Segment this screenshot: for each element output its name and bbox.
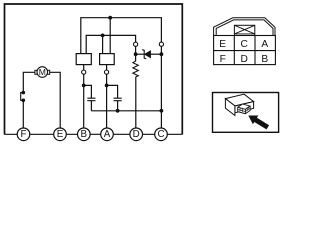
zener diode triangle (144, 51, 150, 58)
pin circle below box1 (82, 70, 86, 74)
capacitor C2 plates (114, 98, 122, 101)
wire: capacitor2 top branch (107, 85, 118, 98)
wire: A riser (106, 74, 108, 128)
capacitor C1 plates (87, 98, 95, 101)
svg-text:C: C (157, 129, 164, 140)
connector housing inner outline (216, 20, 273, 36)
node: rail2 junction to box2 left lead (101, 34, 105, 38)
motor M left brush (35, 70, 38, 74)
node: zener left junction (134, 52, 138, 56)
component box 1 (76, 54, 91, 65)
pin circle below box2 (105, 70, 109, 74)
node: zener right junction (160, 52, 164, 56)
resistor R (zigzag) (133, 61, 138, 77)
breaker contact dot top (22, 91, 26, 95)
svg-text:D: D (241, 54, 248, 65)
zener diode cathode bar with hooks (142, 50, 146, 59)
svg-text:E: E (219, 39, 226, 50)
wire: resistor down to terminal D (135, 77, 137, 128)
node: A riser junction to capacitor 2 (105, 84, 109, 88)
svg-text:F: F (21, 129, 27, 140)
svg-text:C: C (241, 39, 248, 50)
terminal A (101, 128, 114, 141)
svg-text:B: B (261, 54, 268, 65)
wire: rail2 from box1 right lead to left contact (86, 35, 135, 53)
svg-text:A: A (261, 39, 268, 50)
terminal B (78, 128, 91, 141)
wire: F riser (upper part) to motor left (23, 72, 35, 92)
contact point left (open circle) (134, 42, 138, 46)
terminal E (54, 128, 67, 141)
contact point right (open circle) on C riser (159, 42, 163, 46)
wire: bottom terminal rail (5, 133, 183, 135)
location arrow (248, 116, 269, 130)
wire: box2 bottom stub (106, 65, 108, 70)
connector module isometric body (225, 94, 253, 115)
wire: capacitor1 bottom stub (90, 101, 92, 111)
wire: capacitor1 top branch (84, 85, 92, 98)
wire: zener anode lead (150, 53, 161, 55)
node: B riser junction to capacitor 1 (82, 84, 86, 88)
wire: C riser from right contact down to terminal C (160, 46, 162, 128)
svg-text:E: E (57, 129, 64, 140)
motor M body (37, 67, 48, 78)
schematic frame (5, 4, 183, 135)
location icon box (213, 93, 279, 133)
svg-text:B: B (81, 129, 88, 140)
component box 2 (100, 54, 115, 65)
connector module pin block (238, 104, 251, 114)
svg-text:M: M (39, 67, 46, 77)
node: cap2 bottom junction (116, 109, 120, 113)
terminal C (155, 128, 168, 141)
terminal F (17, 128, 30, 141)
wire: zener cathode lead (136, 53, 145, 55)
node: C riser bottom-wire junction (160, 109, 164, 113)
wire: box2 left lead (102, 35, 104, 53)
node: rail1 junction to box2 right lead (108, 16, 112, 20)
circuit breaker bypass bracket (21, 93, 24, 101)
wire: rail1 from box1 left lead to C riser top (81, 18, 162, 54)
motor M right brush (47, 70, 50, 74)
breaker contact dot bottom (22, 99, 26, 103)
terminal D (130, 128, 143, 141)
svg-text:D: D (133, 129, 140, 140)
connector latch crossed box (234, 25, 254, 36)
wire: box1 bottom stub (83, 65, 85, 70)
connector housing outer outline (214, 18, 275, 36)
wire: B riser (83, 74, 85, 128)
wire: motor right to E riser (50, 72, 61, 128)
svg-text:F: F (220, 54, 226, 65)
wire: capacitor2 bottom stub (117, 101, 119, 111)
pin table grid (214, 36, 276, 65)
wire: capacitor common bottom wire to C riser (91, 110, 161, 112)
wire: left contact down to zener node (135, 46, 137, 61)
svg-text:A: A (104, 129, 111, 140)
wire: F riser (lower part) (22, 100, 24, 128)
wire: box2 right lead (109, 18, 111, 54)
